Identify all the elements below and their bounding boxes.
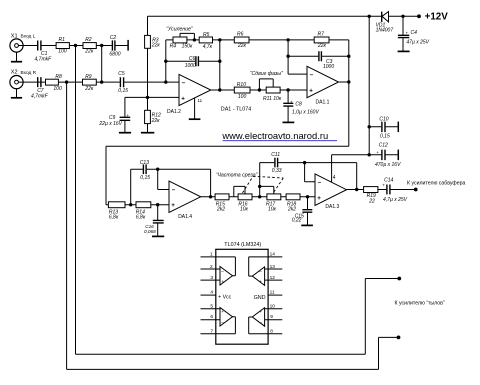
- svg-text:1: 1: [210, 252, 213, 258]
- svg-text:9: 9: [270, 314, 273, 320]
- svg-text:C14: C14: [384, 177, 393, 183]
- svg-text:10: 10: [270, 303, 276, 309]
- svg-text:1000: 1000: [185, 63, 196, 69]
- svg-text:6,8к: 6,8к: [109, 214, 119, 220]
- svg-text:GND: GND: [254, 295, 266, 301]
- svg-text:DA1.2: DA1.2: [167, 109, 181, 115]
- svg-text:–: –: [221, 270, 224, 275]
- svg-text:+: +: [290, 100, 293, 105]
- svg-text:C10: C10: [379, 116, 388, 122]
- svg-text:+ Vcc: + Vcc: [218, 295, 232, 301]
- svg-text:22к: 22к: [237, 43, 247, 49]
- svg-text:47µ x 25V: 47µ x 25V: [406, 39, 429, 45]
- svg-text:–: –: [221, 321, 224, 326]
- svg-text:+: +: [309, 87, 313, 94]
- svg-text:+12V: +12V: [425, 12, 449, 23]
- svg-text:13: 13: [270, 264, 276, 270]
- svg-text:22µ x 16V: 22µ x 16V: [98, 121, 122, 127]
- svg-text:22: 22: [368, 198, 375, 204]
- svg-text:R7: R7: [318, 31, 325, 37]
- svg-text:1000: 1000: [323, 64, 334, 70]
- svg-text:11: 11: [270, 289, 275, 295]
- svg-text:22к: 22к: [151, 43, 161, 49]
- svg-text:+: +: [221, 310, 224, 315]
- svg-text:4,7к: 4,7к: [203, 44, 213, 50]
- svg-text:4: 4: [333, 175, 336, 181]
- svg-text:6800: 6800: [109, 51, 120, 57]
- svg-text:DA1.1: DA1.1: [316, 99, 330, 105]
- svg-text:R4: R4: [170, 44, 177, 50]
- svg-text:R6: R6: [237, 31, 244, 37]
- svg-text:C12: C12: [379, 142, 388, 148]
- svg-text:7: 7: [210, 328, 213, 334]
- svg-text:4,7mkF: 4,7mkF: [35, 56, 53, 62]
- svg-text:C4: C4: [411, 30, 418, 36]
- svg-text:0,15: 0,15: [380, 134, 390, 140]
- svg-text:+: +: [406, 30, 409, 35]
- svg-text:0,15: 0,15: [140, 175, 150, 181]
- svg-text:0,15: 0,15: [118, 88, 128, 94]
- svg-text:R2: R2: [85, 37, 92, 43]
- svg-text:100: 100: [53, 86, 62, 92]
- svg-text:–: –: [182, 79, 186, 86]
- svg-text:100: 100: [238, 94, 247, 100]
- svg-text:+: +: [181, 96, 185, 103]
- svg-text:R1: R1: [59, 37, 66, 43]
- svg-text:1,0µ x 160V: 1,0µ x 160V: [292, 110, 319, 116]
- svg-text:DA1 - TL074: DA1 - TL074: [221, 106, 251, 112]
- svg-text:22к: 22к: [151, 118, 161, 124]
- svg-text:+: +: [317, 195, 321, 202]
- svg-text:22к: 22к: [84, 49, 94, 55]
- svg-text:22к: 22к: [317, 43, 327, 49]
- svg-text:Вход L: Вход L: [21, 33, 36, 39]
- svg-text:12: 12: [270, 275, 276, 281]
- svg-text:К усилителю “тылов”: К усилителю “тылов”: [395, 301, 445, 307]
- svg-text:10к: 10к: [240, 206, 249, 212]
- svg-text:–: –: [259, 321, 262, 326]
- svg-text:R9: R9: [85, 74, 92, 80]
- svg-text:11: 11: [198, 98, 203, 103]
- svg-text:DA1.4: DA1.4: [178, 214, 192, 220]
- svg-text:0,33: 0,33: [272, 168, 282, 174]
- svg-text:100: 100: [58, 49, 67, 55]
- svg-text:4: 4: [210, 289, 213, 295]
- svg-text:+: +: [126, 113, 129, 118]
- svg-text:8: 8: [270, 328, 273, 334]
- svg-text:R5: R5: [203, 32, 210, 38]
- svg-text:2k2: 2k2: [287, 206, 296, 212]
- svg-text:10к: 10к: [268, 206, 277, 212]
- svg-text:C13: C13: [140, 160, 149, 166]
- svg-text:–: –: [310, 71, 314, 78]
- svg-text:+: +: [221, 280, 224, 285]
- svg-text:X2: X2: [11, 70, 18, 76]
- svg-text:C11: C11: [271, 152, 280, 158]
- svg-text:C6: C6: [189, 56, 196, 62]
- svg-text:R11 10к: R11 10к: [263, 96, 282, 102]
- svg-text:+: +: [382, 183, 385, 188]
- svg-text:“Усиление”: “Усиление”: [166, 26, 193, 32]
- svg-text:22к: 22к: [84, 86, 94, 92]
- svg-text:14: 14: [270, 252, 276, 258]
- svg-text:DA1.3: DA1.3: [325, 204, 339, 210]
- svg-text:+: +: [259, 310, 262, 315]
- svg-text:R8: R8: [55, 74, 62, 80]
- svg-text:C8: C8: [295, 101, 302, 107]
- svg-text:2: 2: [210, 264, 213, 270]
- svg-text:+: +: [259, 280, 262, 285]
- svg-text:+: +: [376, 150, 379, 155]
- svg-text:0,068: 0,068: [144, 229, 156, 234]
- svg-text:0,22: 0,22: [292, 218, 302, 224]
- svg-text:“Частота среза”: “Частота среза”: [216, 173, 258, 179]
- svg-text:4,7mkF: 4,7mkF: [31, 93, 49, 99]
- svg-text:6: 6: [210, 314, 213, 320]
- svg-text:+: +: [171, 202, 175, 209]
- svg-text:1N4007: 1N4007: [376, 28, 394, 34]
- svg-text:–: –: [172, 187, 176, 194]
- svg-text:5: 5: [210, 303, 213, 309]
- svg-text:C5: C5: [118, 71, 125, 77]
- svg-text:4,7µ x 25V: 4,7µ x 25V: [383, 197, 408, 203]
- svg-text:C2: C2: [110, 35, 117, 41]
- svg-text:“Сдвиг фазы”: “Сдвиг фазы”: [250, 71, 283, 77]
- svg-text:–: –: [318, 179, 322, 186]
- svg-text:X1: X1: [11, 33, 18, 39]
- svg-text:–: –: [259, 270, 262, 275]
- svg-text:2k2: 2k2: [216, 206, 225, 212]
- svg-text:R10: R10: [237, 82, 246, 88]
- svg-text:470µ x 16V: 470µ x 16V: [375, 162, 401, 168]
- svg-text:6,8к: 6,8к: [136, 214, 146, 220]
- svg-text:3: 3: [210, 275, 213, 281]
- svg-text:TL074 (LM324): TL074 (LM324): [224, 242, 261, 248]
- svg-text:www.electroavto.narod.ru: www.electroavto.narod.ru: [221, 130, 328, 141]
- svg-text:Вход R: Вход R: [21, 70, 37, 76]
- svg-text:150к: 150к: [182, 44, 193, 50]
- svg-text:К усилителю сабвуфера: К усилителю сабвуфера: [407, 180, 465, 186]
